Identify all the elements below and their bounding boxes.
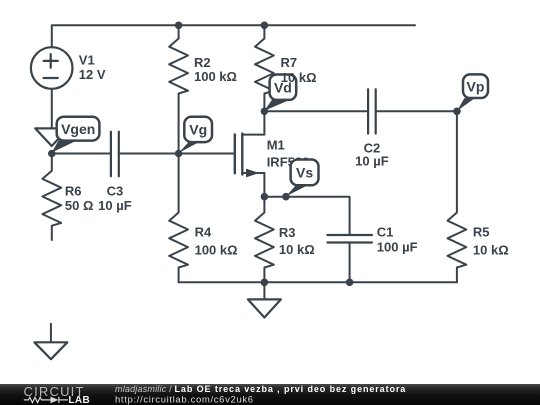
svg-text:R2: R2 xyxy=(194,55,211,70)
node flag Vp xyxy=(457,74,488,111)
svg-text:50 Ω: 50 Ω xyxy=(65,198,94,213)
svg-text:Vg: Vg xyxy=(189,122,207,138)
svg-text:10 kΩ: 10 kΩ xyxy=(281,70,317,85)
capacitor C1 xyxy=(327,235,372,243)
node junction top rail at R7 xyxy=(261,22,269,30)
node source junction xyxy=(261,193,269,201)
wire source rail to C1 corner xyxy=(264,197,349,235)
resistor R4 xyxy=(169,154,188,283)
voltage source V1 xyxy=(31,47,73,89)
node flag Vd xyxy=(264,75,296,111)
svg-text:R4: R4 xyxy=(195,225,212,240)
svg-text:10 µF: 10 µF xyxy=(355,154,389,169)
capacitor C3 xyxy=(111,132,119,177)
footer bar xyxy=(0,384,540,405)
node Vp junction xyxy=(453,108,461,116)
wire C3 to Vg node xyxy=(119,153,179,155)
ground at bottom rail xyxy=(263,282,265,299)
footer logo diode triangle xyxy=(51,397,59,404)
node junction top rail at R2 xyxy=(175,22,183,30)
svg-text:10 kΩ: 10 kΩ xyxy=(279,242,315,257)
resistor R7 xyxy=(255,25,274,111)
wire Vg node to gate xyxy=(179,153,234,155)
wire C1 bottom lead xyxy=(349,243,351,283)
svg-text:LAB: LAB xyxy=(68,395,90,405)
svg-text:V1: V1 xyxy=(79,52,95,67)
svg-text:mladjasmilic / Lab OE treca ve: mladjasmilic / Lab OE treca vezba , prvi… xyxy=(115,384,406,394)
svg-text:10 kΩ: 10 kΩ xyxy=(473,243,509,258)
node Vg junction xyxy=(175,150,183,158)
node C1 bottom junction xyxy=(346,279,354,287)
transistor M1 gate bar xyxy=(234,134,236,173)
node ground junction bottom xyxy=(261,279,269,287)
svg-text:Vp: Vp xyxy=(467,78,485,94)
node Vd junction xyxy=(261,108,269,116)
transistor M1 source lead xyxy=(242,173,264,197)
resistor R6 xyxy=(42,154,61,241)
transistor M1 channel bar xyxy=(241,134,243,175)
transistor M1 drain lead xyxy=(242,111,264,134)
svg-text:100 kΩ: 100 kΩ xyxy=(194,69,237,84)
node flag Vs xyxy=(286,160,319,197)
wire Vgen node to C3 xyxy=(52,153,111,155)
wire V1 minus lead xyxy=(51,89,53,128)
wire top rail from V1 to right dead end xyxy=(52,25,415,47)
svg-text:12 V: 12 V xyxy=(79,67,106,82)
resistor R2 xyxy=(169,25,188,153)
svg-text:Vgen: Vgen xyxy=(61,121,95,137)
svg-text:10 µF: 10 µF xyxy=(98,198,132,213)
wire Vd node to C2 xyxy=(264,110,368,112)
svg-text:C3: C3 xyxy=(107,183,124,198)
svg-text:100 µF: 100 µF xyxy=(377,239,418,254)
transistor M1 source arrow xyxy=(246,169,259,178)
capacitor C2 xyxy=(368,89,376,133)
svg-text:R5: R5 xyxy=(473,225,490,240)
svg-text:http://circuitlab.com/c6v2uk6: http://circuitlab.com/c6v2uk6 xyxy=(115,394,254,405)
svg-text:R3: R3 xyxy=(279,225,296,240)
node Vs junction xyxy=(282,193,290,201)
svg-text:R7: R7 xyxy=(281,55,298,70)
node Vgen junction xyxy=(48,150,56,158)
node flag Vg xyxy=(179,117,212,153)
svg-text:100 kΩ: 100 kΩ xyxy=(195,243,238,258)
footer logo circuit glyph xyxy=(24,397,68,403)
svg-text:C1: C1 xyxy=(377,225,394,240)
svg-text:M1: M1 xyxy=(267,138,285,153)
wire C2 to Vp node xyxy=(376,110,457,112)
svg-text:R6: R6 xyxy=(65,183,82,198)
ground floating bottom left xyxy=(50,324,52,342)
svg-text:Vs: Vs xyxy=(296,165,313,181)
resistor R5 xyxy=(448,111,467,282)
resistor R3 xyxy=(255,197,274,283)
node flag Vgen xyxy=(52,117,100,153)
ground at V1 negative terminal xyxy=(35,128,68,146)
wire bottom rail xyxy=(179,281,457,283)
